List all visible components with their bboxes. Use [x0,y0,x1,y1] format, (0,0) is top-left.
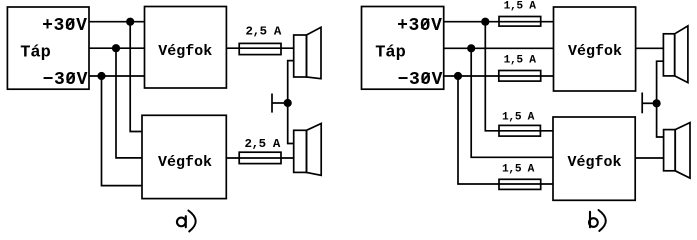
svg-text:Táp: Táp [20,44,51,63]
svg-text:Végfok: Végfok [568,43,622,60]
svg-text:−30V: −30V [43,70,88,90]
svg-text:1,5 A: 1,5 A [502,163,535,175]
svg-text:1,5 A: 1,5 A [504,0,537,12]
svg-text:Végfok: Végfok [158,154,212,171]
svg-text:2,5 A: 2,5 A [245,137,281,151]
svg-text:Végfok: Végfok [568,154,622,171]
svg-text:+30V: +30V [42,16,87,36]
svg-text:Végfok: Végfok [158,43,212,60]
svg-text:−30V: −30V [398,70,443,90]
svg-text:2,5 A: 2,5 A [246,24,282,38]
svg-text:Táp: Táp [375,44,406,63]
svg-text:1,5 A: 1,5 A [502,111,535,123]
svg-text:+30V: +30V [397,16,442,36]
svg-text:1,5 A: 1,5 A [504,55,537,67]
